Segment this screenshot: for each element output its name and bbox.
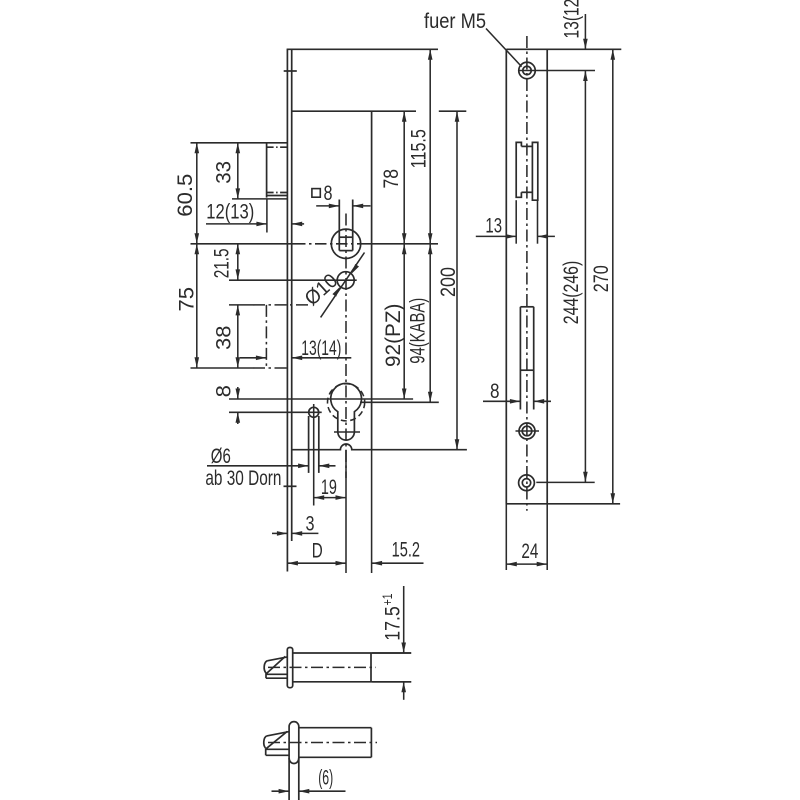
svg-text:8: 8 [490, 380, 500, 403]
svg-text:8: 8 [212, 385, 235, 397]
svg-text:19: 19 [321, 476, 337, 499]
svg-text:13(12): 13(12) [561, 0, 584, 39]
svg-text:17.5: 17.5 [382, 606, 405, 641]
svg-text:115.5: 115.5 [408, 129, 431, 168]
svg-text:Ø6: Ø6 [211, 445, 231, 468]
svg-text:92(PZ): 92(PZ) [382, 304, 405, 367]
svg-text:60.5: 60.5 [174, 174, 197, 217]
svg-text:244(246): 244(246) [560, 261, 583, 325]
svg-text:D: D [312, 540, 323, 563]
svg-text:24: 24 [521, 540, 538, 563]
svg-text:33: 33 [212, 161, 235, 184]
svg-text:200: 200 [437, 267, 460, 297]
svg-text:12(13): 12(13) [206, 201, 254, 224]
svg-text:fuer M5: fuer M5 [424, 10, 486, 33]
svg-text:ab 30 Dorn: ab 30 Dorn [205, 467, 281, 490]
svg-text:270: 270 [590, 265, 613, 292]
svg-text:3: 3 [306, 513, 315, 536]
svg-text:+1: +1 [380, 594, 395, 606]
svg-text:15.2: 15.2 [392, 539, 420, 562]
svg-text:(6): (6) [318, 767, 333, 790]
svg-text:13: 13 [485, 214, 502, 237]
svg-text:75: 75 [176, 287, 199, 312]
svg-text:13(14): 13(14) [301, 337, 341, 360]
svg-text:38: 38 [212, 326, 235, 351]
svg-text:21.5: 21.5 [211, 249, 234, 279]
svg-text:78: 78 [380, 169, 403, 189]
svg-text:8: 8 [324, 182, 333, 205]
svg-text:94(KABA): 94(KABA) [407, 298, 430, 364]
